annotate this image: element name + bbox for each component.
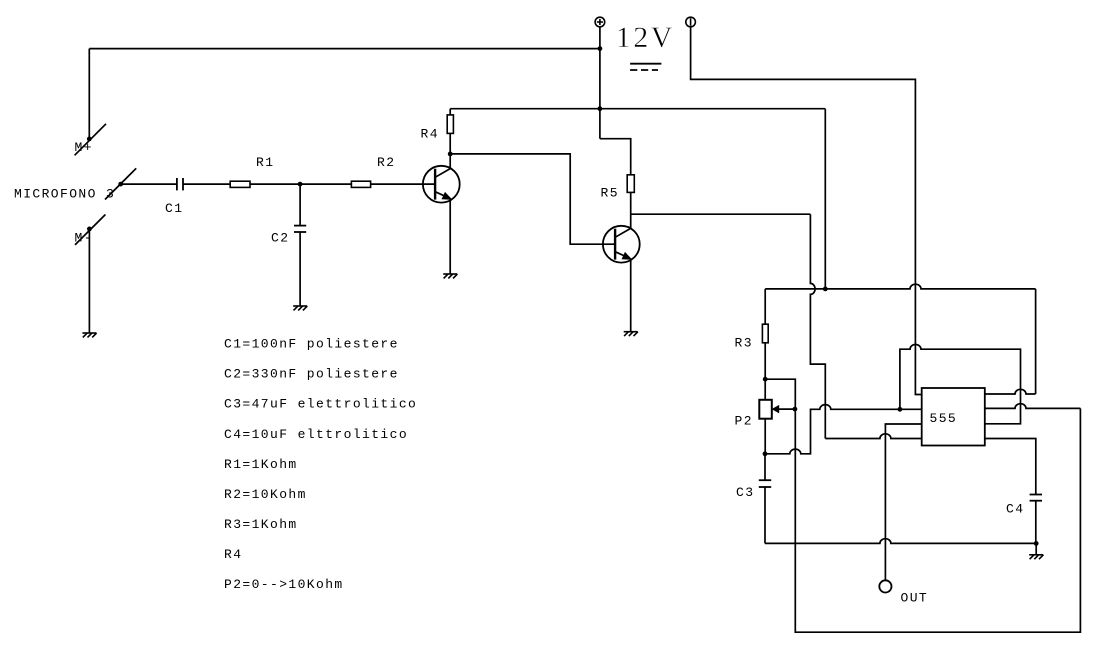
svg-text:R1=1Kohm: R1=1Kohm [224,457,298,472]
terminal microphone input diagonal [105,168,136,199]
wire Vcc horizontal with hop at reset line [765,284,1035,289]
svg-text:555: 555 [930,411,958,426]
wire C2 to ground [299,232,301,306]
wire P2 bottom to C3 node [764,419,766,454]
arrow P2 wiper head [772,406,778,413]
svg-text:C1=100nF poliestere: C1=100nF poliestere [224,337,399,352]
svg-text:R4: R4 [224,547,242,562]
wire Q1 emitter to ground [449,198,451,274]
terminal OUT circle [879,580,891,592]
potentiometer P2 [759,400,772,419]
svg-text:R2: R2 [377,155,395,170]
wire mic to C1 [121,183,177,185]
wire node down to C2 [299,184,301,226]
wire C3 node to top plate [764,454,766,480]
wire net-A jog vertical with hop over Vcc wire [810,214,825,438]
IC 555 box [922,388,985,446]
transistor Q1 [423,166,460,203]
svg-text:P2=0-->10Kohm: P2=0-->10Kohm [224,577,344,592]
wire C3 node to 555 left pin with hops [765,405,922,454]
svg-text:R2=10Kohm: R2=10Kohm [224,487,307,502]
resistor R3 [762,324,768,343]
wire Q1 collector up to node [449,133,451,168]
svg-text:R5: R5 [601,186,619,201]
wire M- down to ground [88,229,90,333]
wire plus rail to R5 [600,139,631,175]
svg-text:M+: M+ [75,140,93,155]
wire dot to ground symbol [1035,543,1037,554]
wire C3 bottom to ground rail [764,487,766,543]
ground bottom right [1029,555,1043,559]
svg-text:MICROFONO 3: MICROFONO 3 [14,187,115,202]
wire R2 to Q1 base [371,183,436,185]
wire C4 bottom to ground rail [1035,501,1037,544]
wire P2 wiper [778,408,795,410]
node R3-P2 dot [763,377,768,382]
power terminal circle-bar [686,17,696,27]
svg-text:C2=330nF poliestere: C2=330nF poliestere [224,367,399,382]
ground under Q1 [443,274,457,278]
svg-text:12V: 12V [616,21,675,54]
wire plus terminal down [599,27,601,139]
ground under M- [82,333,96,337]
wire R5 to Q2 collector [630,192,632,228]
wire Vcc down right side to 555 pin [1035,289,1037,394]
node M+ terminal dot [87,137,92,142]
terminal M+ diagonal [75,124,106,156]
wire R3 to P2 top [764,343,766,400]
wire R4 top to rail [449,109,451,115]
node microphone input dot [118,182,123,187]
svg-text:C4=10uF elttrolitico: C4=10uF elttrolitico [224,427,408,442]
wire R1 to node [250,183,300,185]
svg-text:C1: C1 [165,201,183,216]
wire C1 to R1 [183,183,230,185]
svg-text:C4: C4 [1006,502,1024,517]
node C2 junction dot [298,182,303,187]
wire top rail from M+ to 12V plus terminal [89,48,600,50]
svg-text:OUT: OUT [901,591,929,606]
resistor R4 [447,115,453,133]
svg-text:R3: R3 [735,336,753,351]
wire Q2 emitter to ground [630,258,632,331]
svg-text:R3=1Kohm: R3=1Kohm [224,517,298,532]
wire 555 pin stub2 with hop [985,404,1081,409]
node threshold dot [898,407,903,412]
wire Q2 collector to right jog [631,213,811,215]
wire Q1 collector node to Q2 base [450,154,615,244]
capacitor C3 [759,480,771,487]
wire Vcc to R3 [764,289,766,324]
svg-text:C3=47uF elettrolitico: C3=47uF elettrolitico [224,397,417,412]
capacitor C1 [177,178,183,190]
node M- terminal dot [87,227,92,232]
wire 555 pin stub1 with hop [985,389,1036,394]
transistor Q2 [603,226,640,263]
wire loop from node up over to right pin stub3 with hop [900,345,1021,424]
svg-text:P2: P2 [735,414,753,429]
wire node to R2 [300,183,351,185]
battery DC symbol solid line [630,63,661,65]
battery DC symbol dashed line [630,69,658,71]
wire node to wiper vertical [765,379,795,409]
node Q1 collector dot [448,152,453,157]
resistor R1 [230,181,250,187]
wire M+ vertical [88,49,90,139]
wire 12V rail down to Vcc wire [824,109,826,289]
ground under Q2 [624,332,638,336]
parts list [224,337,417,592]
wire 555 output pin to OUT [885,424,921,580]
wire circle-bar terminal to 555 reset [691,27,922,395]
ground under C2 [293,306,307,310]
node dot at top rail [598,46,603,51]
wire bottom ground rail with hop over OUT line [765,539,1036,544]
node dot at 12V rail [598,106,603,111]
svg-text:C2: C2 [271,230,289,245]
wire net-A into 555 pin with hop over OUT line [825,434,921,439]
node C3 top dot [763,451,768,456]
node bottom right dot [1034,541,1039,546]
capacitor C2 [294,226,306,232]
svg-text:R4: R4 [421,127,439,142]
wire wiper outer loop down bottom and right up to 555 pin stub2 [795,408,1081,632]
capacitor C4 [1030,495,1042,501]
node Vcc rail junction dot [823,287,828,292]
svg-text:R1: R1 [256,155,274,170]
svg-text:C3: C3 [736,485,754,500]
resistor R2 [351,181,370,187]
node P2 wiper dot [793,407,798,412]
power terminal plus [595,17,605,27]
wire 12V rail [450,108,825,110]
wire 555 pin stub4 to C4 [985,439,1036,495]
resistor R5 [627,175,634,193]
terminal M- diagonal [75,215,105,245]
